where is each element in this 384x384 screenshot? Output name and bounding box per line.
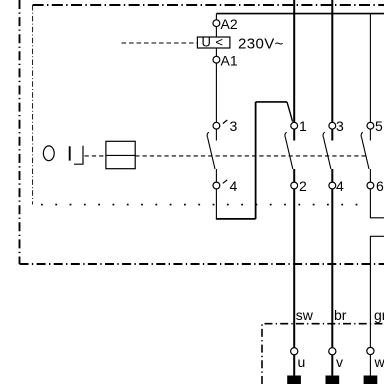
frame: outer boundary left (bold dash-dot) <box>19 0 21 264</box>
mechanical link dashed from U< <box>122 42 198 44</box>
motor terminal block w <box>364 376 378 384</box>
main contact terminal 5 <box>367 122 374 129</box>
contact 5 blade hook <box>361 132 363 137</box>
wire: return from right edge down to w <box>370 236 384 347</box>
aux contact bottom wire <box>215 169 217 182</box>
contact 1 fixed wire <box>293 129 295 140</box>
mechanical link dashed actuator to trip box <box>85 155 106 157</box>
contact 3 bottom wire <box>331 169 333 182</box>
frame: device boundary top (bold dash-dot) <box>33 4 384 6</box>
wire: A2 riser <box>215 14 217 20</box>
wire: supply line L1 (vertical heavy) <box>293 0 295 122</box>
svg-text:sw: sw <box>296 307 314 323</box>
contact 1 bottom wire <box>293 169 295 182</box>
contact 3 blade hook <box>323 132 325 137</box>
wire: latch loop top horizontal <box>256 101 287 103</box>
aux contact terminal 13 <box>213 122 220 129</box>
aux contact blade <box>208 138 215 170</box>
frame: device boundary bottom (dotted) <box>41 204 358 206</box>
svg-text:U<: U< <box>202 35 228 50</box>
svg-text:A1: A1 <box>221 53 238 69</box>
trip mechanism box <box>106 141 135 168</box>
frame: motor boundary corner (dash-dot) <box>262 324 384 384</box>
frame: device boundary left (thin dash-dot) <box>32 5 34 205</box>
wire: latch loop bottom <box>216 218 256 220</box>
trip mechanism box midline <box>106 154 135 156</box>
svg-text:br: br <box>334 307 347 323</box>
aux contact fixed wire <box>215 129 217 140</box>
svg-text:1: 1 <box>299 118 307 134</box>
frame: outer boundary bottom (bold dash-dot) <box>20 263 384 265</box>
undervoltage release U< box <box>197 37 230 48</box>
svg-text:gr: gr <box>374 307 384 323</box>
motor terminal block u <box>287 376 301 384</box>
terminal A2 <box>213 20 220 27</box>
main contact terminal 2 <box>291 182 298 189</box>
wire: phase br from contact 4 down <box>331 189 333 348</box>
svg-text:230V~: 230V~ <box>238 36 284 53</box>
main contact terminal 4 <box>329 182 336 189</box>
wire: drop from top wire to contact 5 <box>369 14 371 123</box>
wire: A1 down to aux contact <box>215 63 217 122</box>
contact 5 fixed wire <box>369 129 371 140</box>
wire: latch diagonal to contact 1 <box>287 102 293 122</box>
wire: U< box to A1 <box>215 48 217 56</box>
contact 3 fixed wire <box>331 129 333 140</box>
contact 1 blade <box>285 138 292 170</box>
main contact terminal 1 <box>291 122 298 129</box>
svg-text:v: v <box>336 354 343 370</box>
mechanical linkage dashed through contacts <box>135 155 365 157</box>
manual actuator bar <box>69 146 71 160</box>
aux contact blade hook <box>207 132 209 137</box>
svg-text:3: 3 <box>230 118 238 134</box>
wire: latch loop vertical <box>255 102 257 219</box>
svg-text:3: 3 <box>336 118 344 134</box>
contact 5 blade <box>362 138 369 170</box>
wire: latch loop from 14 down <box>215 189 217 219</box>
contact 3 blade <box>324 138 331 170</box>
wire: A2 to U< box <box>215 27 217 37</box>
aux contact terminal 14 <box>213 182 220 189</box>
svg-text:4: 4 <box>230 178 238 194</box>
contact 5 bottom wire <box>369 169 371 182</box>
wire: w stub to motor <box>369 355 371 376</box>
main contact terminal 6 <box>367 182 374 189</box>
svg-text:4: 4 <box>336 178 344 194</box>
svg-text:2: 2 <box>299 178 307 194</box>
manual actuator bracket <box>74 146 83 165</box>
wire: top horizontal from A2 to right edge <box>216 13 384 15</box>
manual actuator ellipse <box>43 146 54 161</box>
svg-text:6: 6 <box>376 178 384 194</box>
wire: u stub to motor <box>293 355 295 376</box>
terminal u <box>291 348 298 355</box>
terminal A1 <box>213 56 220 63</box>
svg-text:A2: A2 <box>221 16 238 32</box>
main contact terminal 3 <box>329 122 336 129</box>
wire: v stub to motor <box>331 355 333 376</box>
terminal w <box>367 347 374 354</box>
svg-text:5: 5 <box>375 118 383 134</box>
wire: contact 6 down and out to right edge <box>370 189 384 218</box>
wire: supply line L2 (vertical heavy) <box>331 0 333 122</box>
terminal v <box>329 348 336 355</box>
motor terminal block v <box>326 376 340 384</box>
wire: phase sw from contact 2 down <box>293 189 295 348</box>
svg-text:w: w <box>374 354 384 370</box>
svg-text:u: u <box>298 354 306 370</box>
contact 1 blade hook <box>285 132 287 137</box>
